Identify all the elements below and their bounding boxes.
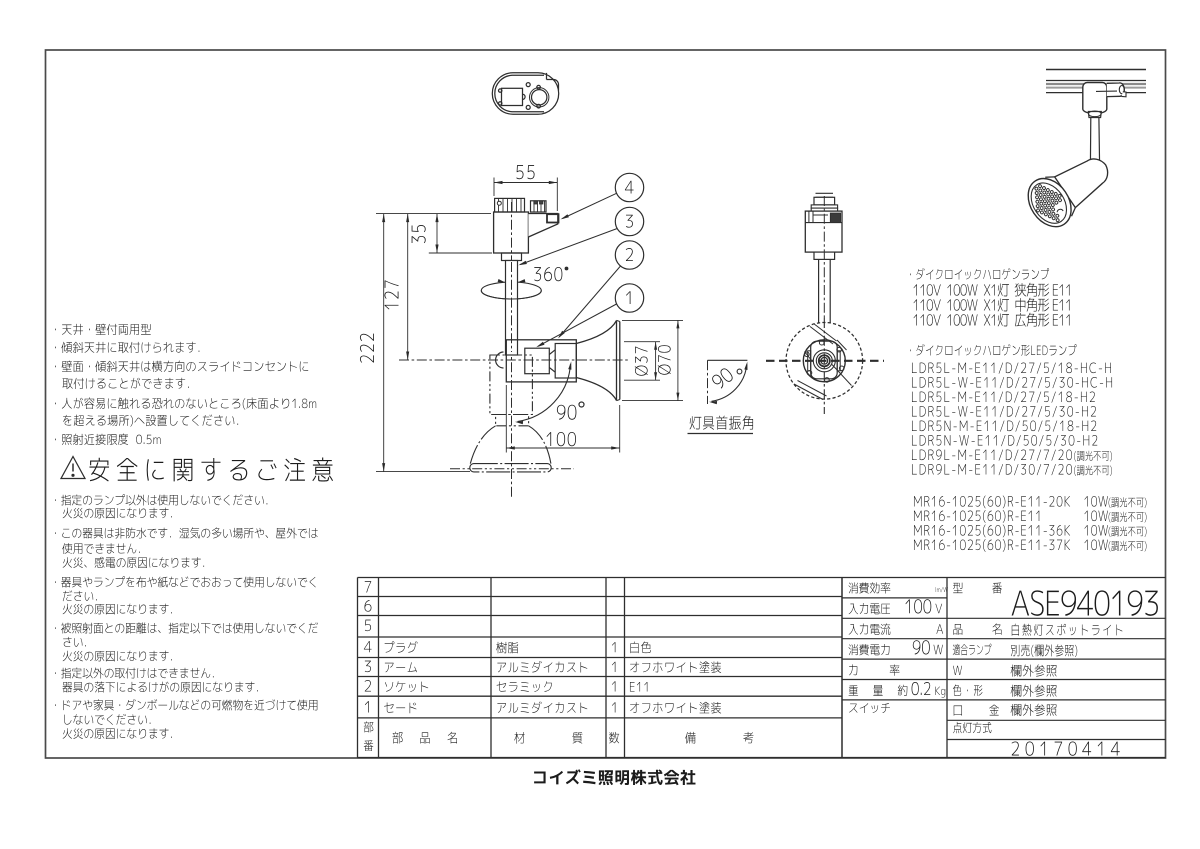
shade outline (dashed circle) [786, 323, 863, 400]
lamp-head swing angle diagram [688, 360, 754, 433]
adapter body [494, 212, 529, 253]
specification table [842, 578, 1166, 758]
balloon 3 (arm/stem) [615, 207, 643, 235]
dimensioned elevation drawing (centre) [360, 165, 683, 497]
track plug adapter [1083, 83, 1107, 114]
balloon 1 (shade) [615, 284, 643, 312]
installation notes (left column) [55, 324, 316, 445]
dimension 222 / 127 / 35 extension lines [376, 213, 491, 215]
dimension 55 [493, 178, 495, 197]
screws [819, 340, 824, 345]
front view of lamp head (middle right) [766, 193, 884, 414]
safety warning heading [61, 457, 333, 482]
parts list table [358, 578, 843, 758]
sheet border frame [46, 50, 1166, 758]
plug top [814, 197, 835, 205]
stem step [814, 252, 835, 259]
perspective view: spotlight on lighting track (top right) [1019, 70, 1146, 235]
adapter body [805, 211, 842, 252]
safety warning notes [55, 494, 318, 739]
stem [1090, 118, 1099, 167]
compatible lamp list (right column) [910, 268, 1146, 552]
top view of fixture plug (plan drawing, top centre) [492, 73, 558, 114]
dimension dia70 [622, 319, 683, 321]
dimension 127 [407, 214, 409, 360]
lighting track [1046, 69, 1146, 71]
date [1012, 741, 1120, 755]
arm housing (part 2/3 area) [506, 340, 576, 382]
centre line [511, 202, 513, 497]
adapter arm [528, 214, 557, 238]
dimension 100 [505, 385, 507, 453]
model number [1012, 590, 1158, 616]
mounting plate [811, 341, 838, 379]
90 degree swing arc [518, 364, 571, 422]
company logo: Koizumi Lighting [534, 769, 695, 785]
dimension dia37 [624, 341, 660, 343]
shade (part 1, pointing right) [576, 321, 616, 344]
socket (part 2) [525, 348, 550, 374]
balloon 4 (plug) [615, 173, 643, 201]
dimension 222 [383, 214, 385, 472]
balloon 2 (socket) [615, 241, 643, 269]
shine lines [814, 324, 837, 342]
lamp head [1019, 143, 1120, 234]
plug (part 4) top cap [495, 198, 525, 212]
lamp body circle [803, 340, 845, 382]
dimension 35 [436, 214, 438, 253]
stem step [502, 253, 522, 261]
centre cross [766, 360, 884, 362]
swivel joint [496, 352, 504, 368]
stem [818, 259, 820, 323]
stem (part 3) [506, 261, 518, 356]
lamp head alternate position (phantom, pointing down) [490, 355, 533, 415]
360deg rotation ellipse [481, 282, 541, 299]
track stub [816, 192, 834, 194]
lamp rings [813, 350, 835, 372]
